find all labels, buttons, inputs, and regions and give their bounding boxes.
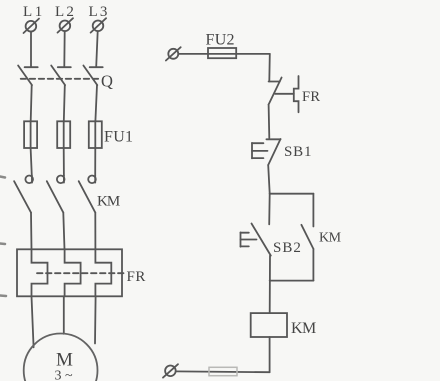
- wire fuse to KM contact 3: [94, 148, 96, 176]
- motor M circle: [24, 334, 98, 381]
- FR heater element 1: [32, 249, 48, 296]
- wire KM to FR box 3: [94, 213, 96, 250]
- wire FR contact to SB1: [268, 105, 271, 139]
- wire KM to FR box 1: [30, 213, 33, 250]
- switch Q pole 2: [51, 66, 71, 86]
- FR heater element 2: [65, 249, 81, 296]
- contactor KM main contact 3: [79, 176, 96, 213]
- svg-text:FU1: FU1: [104, 129, 133, 146]
- svg-text:L3: L3: [89, 4, 110, 20]
- pushbutton SB2 NO start: [252, 224, 271, 256]
- fuse FU1 pole 3: [89, 121, 102, 148]
- thermal relay FR box: [17, 249, 122, 296]
- FR release actuator: [275, 76, 299, 112]
- wire L3 to switch: [96, 31, 98, 67]
- wire SB2 to coil: [269, 256, 271, 314]
- svg-text:KM: KM: [97, 194, 120, 210]
- wire switch to fuse 2: [64, 85, 65, 121]
- svg-text:Q: Q: [101, 72, 113, 91]
- svg-text:KM: KM: [291, 320, 316, 337]
- contactor KM auxiliary contact: [301, 225, 313, 249]
- wire corner down to FR contact: [268, 54, 271, 81]
- fuse bottom faint: [209, 367, 237, 375]
- svg-text:L2: L2: [55, 4, 76, 20]
- node L2 terminal: [58, 18, 74, 32]
- switch Q linkage dashed: [21, 78, 99, 80]
- switch Q pole 3: [83, 66, 102, 86]
- svg-text:FR: FR: [302, 89, 320, 105]
- wire bottom horizontal: [176, 370, 270, 373]
- svg-text:KM: KM: [319, 231, 342, 246]
- contactor KM main contact 2: [47, 176, 65, 213]
- fuse FU2: [208, 48, 236, 58]
- wire L1 to switch: [30, 32, 32, 67]
- contactor KM main contact 1: [14, 176, 33, 213]
- contactor coil KM: [251, 313, 287, 337]
- svg-text:L1: L1: [23, 4, 45, 20]
- wire switch to fuse 1: [31, 85, 32, 121]
- wire fuse to KM contact 1: [31, 148, 32, 176]
- node control top terminal: [166, 47, 181, 60]
- FR heater element 3: [95, 249, 111, 296]
- wire SB1 to junction: [268, 165, 270, 194]
- fuse FU1 pole 2: [57, 121, 70, 148]
- switch Q pole 1: [18, 66, 38, 86]
- node L3 terminal: [91, 18, 107, 32]
- node L1 terminal: [24, 19, 40, 33]
- SB2 button actuator: [241, 232, 257, 246]
- scan artifact marks left edge: [0, 177, 6, 297]
- wire FU2 to corner: [236, 53, 270, 55]
- svg-text:FU2: FU2: [206, 32, 235, 49]
- pushbutton SB1 NC stop: [266, 139, 280, 165]
- wire FR box to motor 2: [63, 296, 65, 334]
- wire main down to SB2: [268, 194, 271, 225]
- svg-text:FR: FR: [127, 269, 146, 285]
- wire terminal to FU2: [178, 53, 208, 55]
- wire fuse to KM contact 2: [63, 148, 65, 176]
- svg-text:SB2: SB2: [273, 240, 302, 256]
- wire switch to fuse 3: [95, 85, 97, 121]
- wire branch top horizontal: [270, 193, 314, 195]
- wire branch bottom horizontal: [270, 280, 314, 282]
- svg-text:SB1: SB1: [284, 144, 312, 160]
- FR linkage dashed: [37, 272, 126, 274]
- thermal relay FR NC contact: [269, 78, 282, 105]
- wire FR box to motor 3: [94, 296, 97, 343]
- SB1 button actuator: [252, 143, 268, 159]
- svg-text:M: M: [56, 350, 73, 371]
- wire branch down to KM aux: [312, 194, 314, 227]
- wire L2 to switch: [63, 31, 65, 67]
- wire KM aux to bottom rail: [312, 249, 314, 281]
- node control bottom terminal: [163, 364, 178, 377]
- fuse FU1 pole 1: [24, 121, 37, 148]
- wire KM to FR box 2: [63, 213, 64, 250]
- wire coil to bottom corner: [269, 337, 271, 372]
- wire FR box to motor 1: [32, 296, 34, 347]
- svg-text:3~: 3~: [55, 369, 77, 381]
